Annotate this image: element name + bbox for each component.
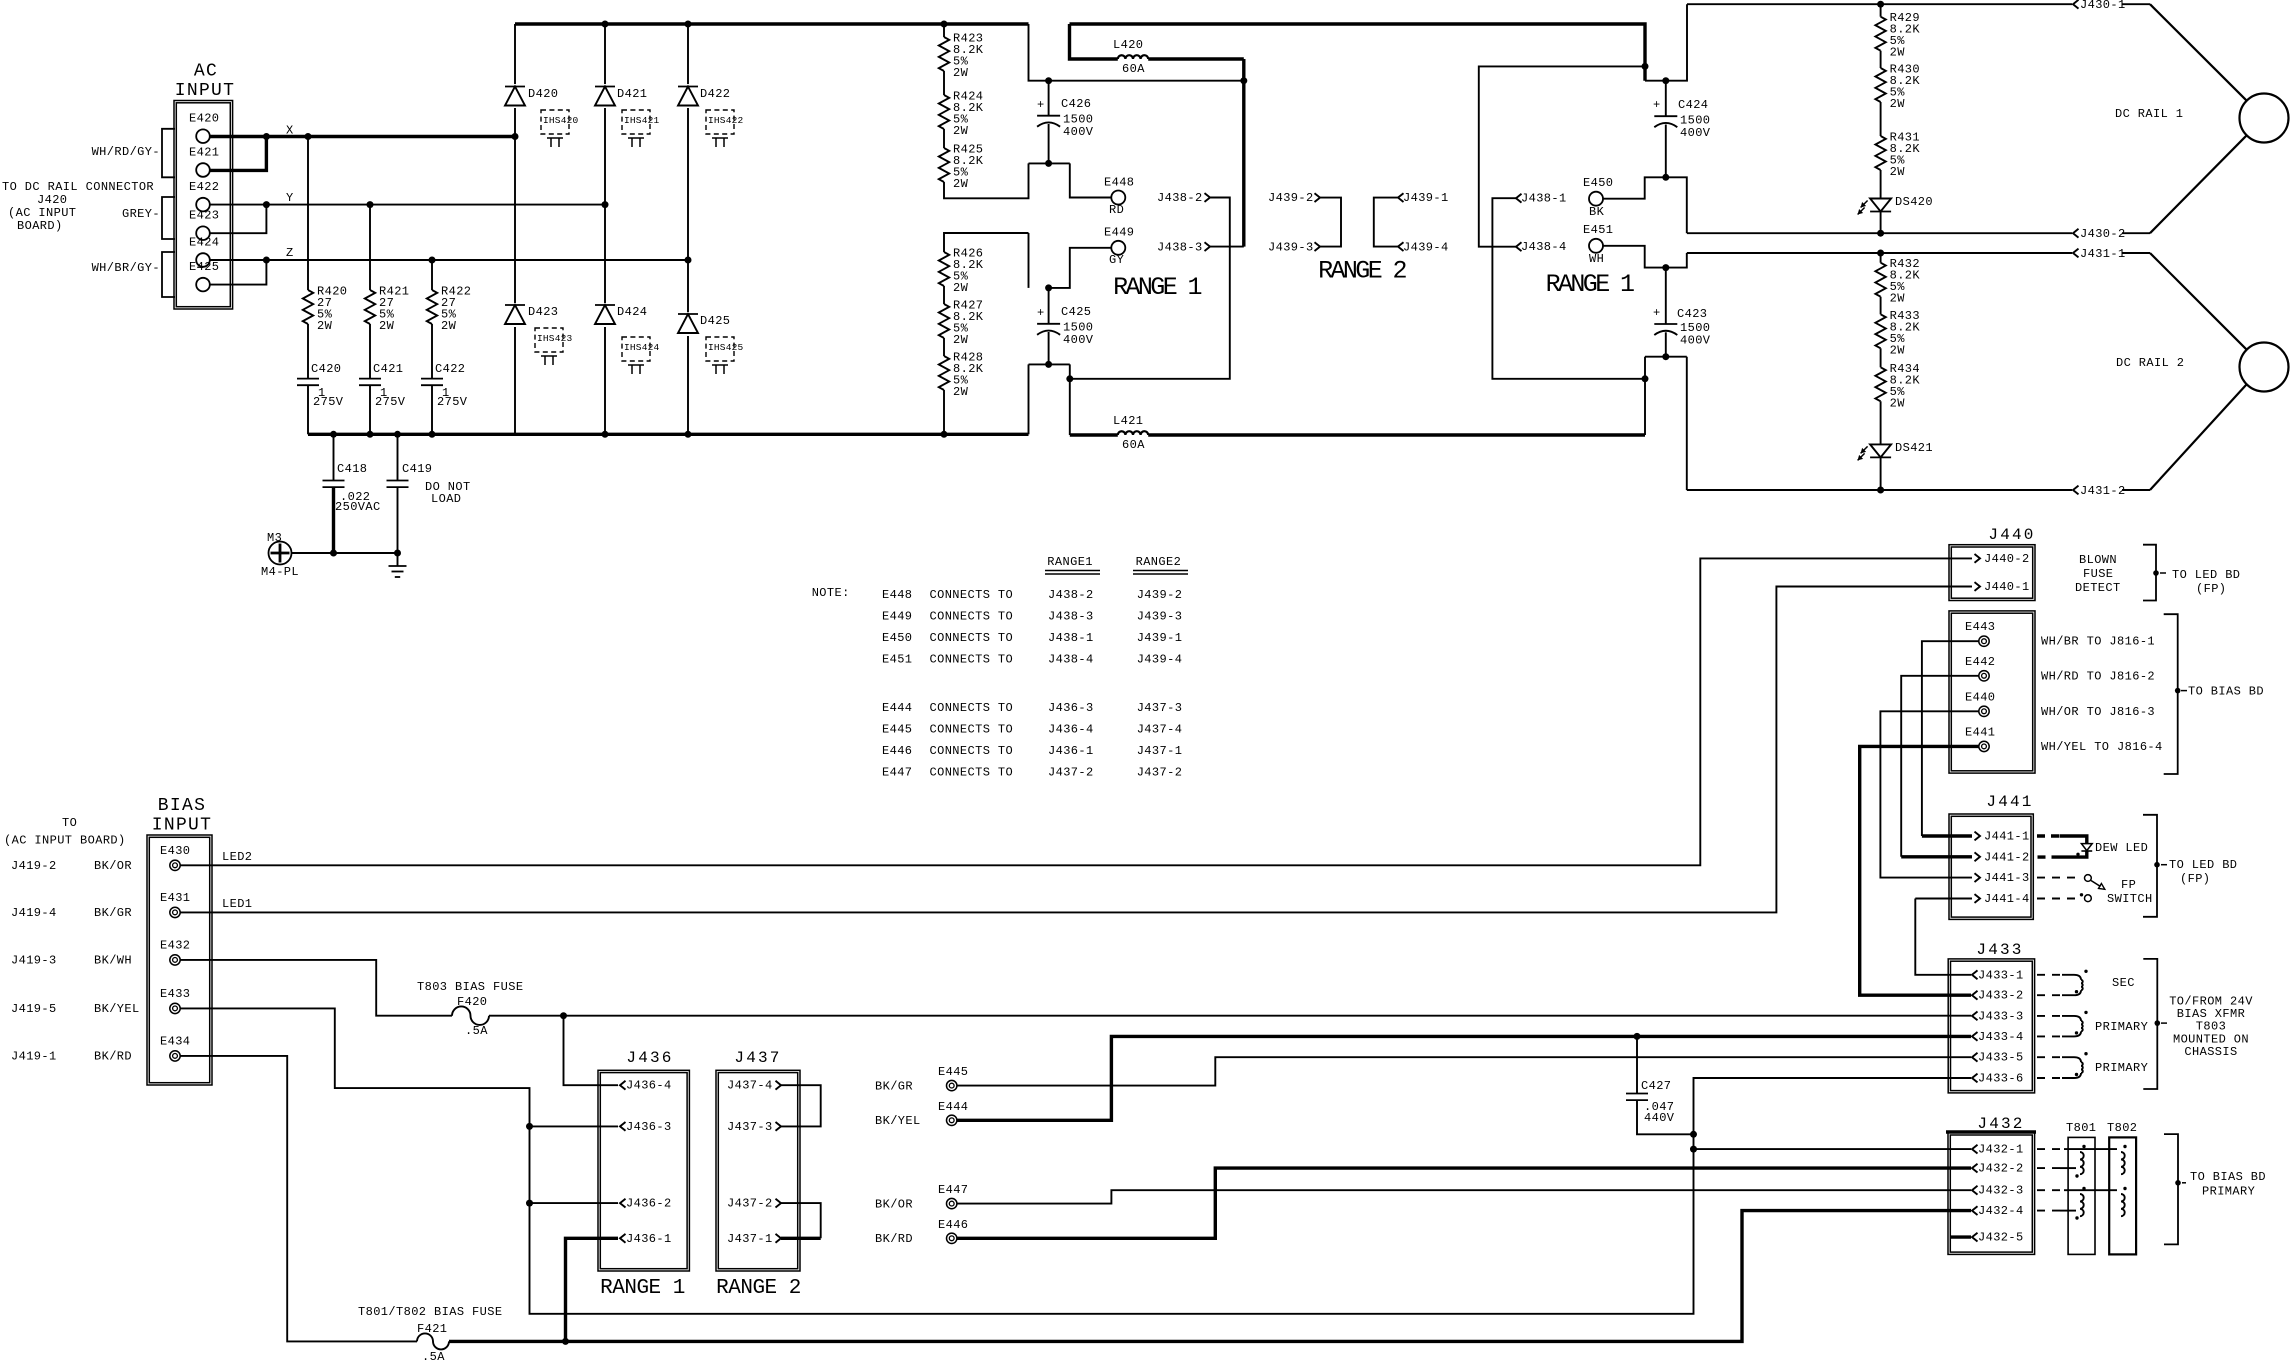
svg-text:LOAD: LOAD: [431, 492, 461, 506]
resistor R427 8.2K 5% 2W: [939, 286, 984, 347]
svg-text:J437-3: J437-3: [1137, 701, 1183, 715]
svg-text:C418: C418: [337, 462, 367, 476]
wire E423 jumper to Y: [210, 205, 267, 234]
svg-text:E449: E449: [882, 609, 912, 623]
svg-text:J440-1: J440-1: [1984, 580, 2030, 594]
svg-text:C423: C423: [1677, 307, 1707, 321]
label J419-5 BK/YEL: [11, 1002, 140, 1016]
svg-text:T801/T802 BIAS FUSE: T801/T802 BIAS FUSE: [358, 1305, 502, 1319]
svg-text:RANGE 1: RANGE 1: [1113, 273, 1201, 302]
resistor R423 8.2K 5% 2W: [939, 24, 984, 80]
wire F420 to J433-3: [489, 1015, 1971, 1017]
junction Z/bridge: [685, 257, 692, 264]
terminal E420: [189, 112, 219, 143]
svg-text:E448: E448: [1104, 176, 1134, 190]
junction top bus D422: [685, 21, 692, 28]
svg-text:RANGE 2: RANGE 2: [1318, 256, 1406, 285]
svg-text:440V: 440V: [1644, 1111, 1675, 1125]
svg-text:WH/YEL TO J816-4: WH/YEL TO J816-4: [2041, 740, 2163, 754]
svg-text:+: +: [1037, 98, 1045, 112]
svg-text:FUSE: FUSE: [2083, 567, 2113, 581]
svg-text:BK/GR: BK/GR: [94, 906, 132, 920]
connector J440 box: [1949, 526, 2036, 601]
winding T803 PRIMARY 1: [2037, 1011, 2148, 1037]
fuse F421 .5A T801/T802 BIAS FUSE: [358, 1305, 502, 1364]
svg-text:L421: L421: [1113, 414, 1143, 428]
svg-text:E424: E424: [189, 236, 219, 250]
svg-text:RANGE 2: RANGE 2: [716, 1277, 801, 1300]
svg-text:J439-4: J439-4: [1137, 652, 1183, 666]
terminal E449 GY: [1104, 226, 1134, 268]
diode D425: [676, 312, 730, 336]
bracket TO LED BD (FP) for J440: [2143, 545, 2240, 601]
capacitor C421 1 275V: [359, 324, 406, 434]
junction Z/J436-2: [526, 1200, 533, 1207]
svg-text:E444: E444: [882, 701, 912, 715]
svg-text:2W: 2W: [953, 281, 969, 295]
junction E444 net C427: [1634, 1033, 1641, 1040]
svg-text:(FP): (FP): [2196, 582, 2226, 596]
capacitor C427 .047 440V: [1626, 1036, 1694, 1134]
svg-text:F420: F420: [457, 995, 487, 1009]
resistor R422 27 5% 2W: [427, 260, 472, 333]
pin J436-4: [620, 1079, 672, 1093]
pin J433-1: [1972, 968, 2024, 982]
terminal E451 WH: [1583, 223, 1613, 266]
pin J436-2: [620, 1197, 672, 1211]
svg-text:J438-4: J438-4: [1521, 240, 1567, 254]
wire J431-2 rail: [1687, 489, 2072, 491]
svg-text:275V: 275V: [313, 395, 344, 409]
svg-text:2W: 2W: [1890, 396, 1906, 410]
svg-text:E441: E441: [1965, 725, 1995, 739]
pin J432-2: [1972, 1162, 2024, 1176]
junction Y/E423: [263, 201, 270, 208]
terminal E444 BK/YEL: [875, 1100, 968, 1128]
svg-text:DS421: DS421: [1895, 441, 1933, 455]
svg-text:D425: D425: [700, 314, 730, 328]
pin J431-1: [2073, 247, 2150, 261]
svg-text:J437-4: J437-4: [1137, 723, 1183, 737]
svg-text:E447: E447: [938, 1183, 968, 1197]
winding T803 PRIMARY 2: [2037, 1052, 2148, 1078]
label WH/RD/GY with bracket: [92, 129, 175, 178]
svg-text:J431-1: J431-1: [2080, 247, 2126, 261]
svg-text:PRIMARY: PRIMARY: [2095, 1020, 2148, 1034]
wire Z bias E433 to J436/J432-1 net: [180, 1008, 1971, 1313]
wire R425 bottom to C426- node: [944, 163, 1029, 198]
svg-text:C427: C427: [1641, 1079, 1671, 1093]
svg-text:J441-4: J441-4: [1984, 892, 2030, 906]
svg-text:J436: J436: [626, 1049, 673, 1067]
junction C425-: [1045, 361, 1052, 368]
svg-text:J433-4: J433-4: [1978, 1030, 2024, 1044]
svg-text:400V: 400V: [1680, 334, 1711, 348]
label J419-4 BK/GR: [11, 906, 132, 920]
svg-text:275V: 275V: [437, 395, 468, 409]
label GREY with bracket: [122, 197, 175, 239]
connector J441 box: [1949, 793, 2034, 919]
svg-text:Y: Y: [286, 191, 294, 205]
resistor R421 27 5% 2W: [365, 205, 410, 333]
wire bridge+ feed to C426/L420out: [1029, 24, 1244, 81]
svg-text:60A: 60A: [1122, 438, 1145, 452]
svg-text:WH/BR TO J816-1: WH/BR TO J816-1: [2041, 635, 2155, 649]
svg-text:DETECT: DETECT: [2075, 581, 2121, 595]
terminal E432: [160, 938, 190, 965]
svg-text:J437-1: J437-1: [1137, 744, 1183, 758]
svg-text:2W: 2W: [441, 319, 457, 333]
diode D420: [503, 84, 558, 108]
svg-text:J438-2: J438-2: [1157, 191, 1203, 205]
wire E442 to J441-2: [1901, 676, 1979, 857]
svg-text:T803 BIAS FUSE: T803 BIAS FUSE: [417, 980, 523, 994]
svg-text:IHS424: IHS424: [624, 342, 660, 353]
svg-text:J438-1: J438-1: [1521, 192, 1567, 206]
junction top bus D421: [602, 21, 609, 28]
svg-text:INPUT: INPUT: [152, 816, 213, 836]
svg-text:BOARD): BOARD): [17, 219, 63, 233]
connector BIAS INPUT box: [147, 796, 212, 1085]
wire bridge positive top bus: [515, 22, 1029, 25]
wire Y bias E434 to F421: [180, 1056, 417, 1342]
svg-text:J439-2: J439-2: [1268, 191, 1314, 205]
wire R428 bottom to bus: [943, 390, 945, 434]
chassis screw M3 M4-PL: [261, 531, 299, 579]
terminal E425: [189, 260, 219, 291]
led DEW LED: [2037, 836, 2148, 857]
wire J436-1 drop thick: [566, 1238, 619, 1341]
junction X/R420: [305, 133, 312, 140]
junction rail2/R432: [1877, 250, 1884, 257]
wire bridge right column: [687, 24, 689, 434]
svg-text:DEW LED: DEW LED: [2095, 841, 2148, 855]
switch FP SWITCH: [2037, 875, 2153, 906]
resistor R434 8.2K 5% 2W: [1875, 348, 1920, 410]
svg-text:E446: E446: [938, 1218, 968, 1232]
led DS420: [1858, 170, 1933, 233]
capacitor C423 1500 400V: [1653, 268, 1711, 357]
wire E447 to J432-3: [957, 1190, 1971, 1203]
svg-text:BK/YEL: BK/YEL: [94, 1002, 140, 1016]
svg-text:J437-2: J437-2: [727, 1197, 773, 1211]
terminal E421: [189, 146, 219, 177]
terminal E430: [160, 844, 190, 871]
wire X bias E432 to F420: [180, 960, 452, 1016]
svg-text:BK/GR: BK/GR: [875, 1080, 913, 1094]
terminal E424: [189, 236, 219, 267]
svg-text:RANGE2: RANGE2: [1136, 555, 1182, 569]
junction L420 out: [1240, 77, 1247, 84]
svg-text:J433: J433: [1976, 941, 2023, 959]
terminal E423: [189, 209, 219, 240]
svg-text:SWITCH: SWITCH: [2107, 892, 2153, 906]
wire L420 output drop to J438-3: [1242, 59, 1245, 247]
winding T801 lower: [2075, 1187, 2085, 1220]
wire C423- left arm to L421 out: [1644, 357, 1646, 435]
svg-text:D422: D422: [700, 87, 730, 101]
svg-text:J438-3: J438-3: [1157, 241, 1203, 255]
heatsink IHS423: [535, 328, 573, 365]
svg-text:PRIMARY: PRIMARY: [2095, 1061, 2148, 1075]
svg-text:J439-1: J439-1: [1403, 191, 1449, 205]
svg-text:2W: 2W: [1890, 343, 1906, 357]
label J419-3 BK/WH: [11, 953, 132, 967]
svg-text:J440-2: J440-2: [1984, 552, 2030, 566]
ground symbol: [389, 553, 407, 577]
junction Z/R422: [429, 257, 436, 264]
junction Z riser J432-1: [1690, 1146, 1697, 1153]
svg-text:D423: D423: [528, 305, 558, 319]
pin J439-1: [1398, 191, 1449, 205]
winding T801 upper: [2075, 1145, 2085, 1178]
svg-text:J419-5: J419-5: [11, 1002, 57, 1016]
svg-text:J419-4: J419-4: [11, 906, 57, 920]
svg-text:RANGE 1: RANGE 1: [600, 1277, 685, 1300]
svg-text:GY: GY: [1109, 253, 1124, 267]
junction X/bridge: [512, 133, 519, 140]
wire J441-4 to J433-1: [1915, 899, 1971, 975]
svg-text:.5A: .5A: [465, 1024, 488, 1038]
svg-text:+: +: [1037, 306, 1045, 320]
terminal E443: [1965, 620, 1995, 646]
heatsink IHS422: [706, 110, 744, 147]
svg-text:DC RAIL 1: DC RAIL 1: [2115, 107, 2183, 121]
svg-text:J437-1: J437-1: [727, 1232, 773, 1246]
wire J432-1 stub: [1694, 1148, 1972, 1150]
pin J440-2: [1975, 552, 2030, 566]
resistor R428 8.2K 5% 2W: [939, 338, 984, 399]
wire snubber ground bus: [308, 433, 1029, 436]
svg-text:SEC: SEC: [2112, 976, 2135, 990]
resistor R425 8.2K 5% 2W: [939, 129, 984, 191]
svg-text:T803: T803: [2196, 1020, 2226, 1034]
svg-text:E422: E422: [189, 180, 219, 194]
svg-text:J441: J441: [1986, 793, 2033, 811]
pin J430-1: [2073, 0, 2150, 12]
svg-text:DS420: DS420: [1895, 195, 1933, 209]
svg-text:D420: D420: [528, 87, 558, 101]
winding T802 upper: [2121, 1145, 2127, 1174]
wire LED2 E430 to J440-2: [180, 558, 1972, 865]
svg-text:J439-3: J439-3: [1137, 609, 1183, 623]
svg-text:T801: T801: [2066, 1121, 2096, 1135]
svg-text:TO DC RAIL CONNECTOR: TO DC RAIL CONNECTOR: [2, 180, 154, 194]
transformer T802 box: [2107, 1121, 2137, 1254]
pin J438-2: [1157, 191, 1210, 205]
svg-text:E443: E443: [1965, 620, 1995, 634]
pin J440-1: [1975, 580, 2030, 594]
svg-text:E445: E445: [882, 723, 912, 737]
svg-text:X: X: [286, 124, 294, 138]
svg-text:J419-1: J419-1: [11, 1049, 57, 1063]
capacitor C425 1500 400V: [1037, 288, 1094, 365]
wire E421 jumper to X: [210, 137, 267, 171]
svg-text:IHS425: IHS425: [708, 342, 744, 353]
svg-text:CONNECTS TO: CONNECTS TO: [930, 652, 1014, 666]
svg-text:E431: E431: [160, 891, 190, 905]
junction Z/E425: [263, 257, 270, 264]
capacitor C420 1 275V: [297, 324, 344, 434]
heatsink IHS425: [706, 337, 744, 374]
svg-text:E445: E445: [938, 1065, 968, 1079]
pin J433-4: [1972, 1030, 2024, 1044]
capacitor C419 DO NOT LOAD: [387, 434, 471, 553]
svg-text:L420: L420: [1113, 38, 1143, 52]
resistor R431 8.2K 5% 2W: [1875, 102, 1920, 179]
svg-text:RANGE 1: RANGE 1: [1546, 270, 1634, 299]
pin J432-4: [1972, 1204, 2024, 1218]
svg-text:LED2: LED2: [222, 850, 252, 864]
pin J441-4: [1975, 892, 2030, 906]
svg-text:J439-1: J439-1: [1137, 631, 1183, 645]
connector J420 AC INPUT box: [174, 62, 235, 310]
svg-text:J433-1: J433-1: [1978, 968, 2024, 982]
terminal E447 BK/OR: [875, 1183, 968, 1212]
resistor R420 27 5% 2W: [303, 137, 348, 334]
junction bus/C422: [429, 431, 436, 438]
wire R426 top drop to C425+ node: [1028, 233, 1030, 288]
connector J436 box: [598, 1049, 689, 1300]
connector E44x block box: [1949, 611, 2035, 773]
svg-text:E449: E449: [1104, 226, 1134, 240]
svg-text:J436-1: J436-1: [626, 1232, 672, 1246]
svg-text:CONNECTS TO: CONNECTS TO: [930, 766, 1014, 780]
svg-text:400V: 400V: [1063, 333, 1094, 347]
svg-text:J431-2: J431-2: [2080, 484, 2126, 498]
resistor R432 8.2K 5% 2W: [1875, 253, 1920, 306]
svg-text:CONNECTS TO: CONNECTS TO: [930, 588, 1014, 602]
svg-text:IHS421: IHS421: [624, 115, 660, 126]
svg-text:E423: E423: [189, 209, 219, 223]
junction bottom bus D424: [602, 431, 609, 438]
junction C425+: [1045, 284, 1052, 291]
wire C425- left arm to ground bus: [1028, 364, 1030, 434]
svg-text:IHS422: IHS422: [708, 115, 744, 126]
svg-text:J436-1: J436-1: [1048, 744, 1094, 758]
label WH/BR/GY with bracket: [92, 252, 175, 297]
wire C425- cross arms: [1029, 363, 1070, 365]
wire C423- right arm to J431-2: [1686, 357, 1688, 490]
svg-text:J437: J437: [734, 1049, 781, 1067]
bracket TO BIAS BD PRIMARY: [2164, 1134, 2266, 1244]
fuse F420 .5A T803 BIAS FUSE: [417, 980, 523, 1038]
wire M3 to ground: [292, 552, 398, 554]
wire J436-3 stub: [530, 1125, 619, 1127]
svg-text:2W: 2W: [1890, 97, 1906, 111]
pin J441-2: [1975, 850, 2030, 864]
svg-text:J438-4: J438-4: [1048, 652, 1094, 666]
junction C423-: [1662, 353, 1669, 360]
pin J441-3: [1975, 871, 2030, 885]
diode D421: [593, 84, 647, 108]
svg-text:60A: 60A: [1122, 62, 1145, 76]
wire J432-5 stub: [1950, 1235, 1971, 1238]
label J419-1 BK/RD: [11, 1049, 132, 1063]
svg-text:E447: E447: [882, 766, 912, 780]
note table header RANGE1: [1045, 555, 1100, 574]
svg-text:J436-3: J436-3: [1048, 701, 1094, 715]
svg-text:J433-5: J433-5: [1978, 1051, 2024, 1065]
svg-text:BK: BK: [1589, 205, 1605, 219]
resistor R424 8.2K 5% 2W: [939, 71, 984, 138]
svg-text:D421: D421: [617, 87, 647, 101]
wire C423+ to J431-1: [1666, 253, 1687, 268]
wire E441 to J433-2 thick: [1860, 746, 1979, 995]
pin J438-1: [1516, 192, 1567, 206]
svg-text:NOTE:: NOTE:: [812, 586, 850, 600]
junction C426-: [1045, 160, 1052, 167]
svg-text:C419: C419: [402, 462, 432, 476]
svg-text:TO BIAS BD: TO BIAS BD: [2190, 1170, 2266, 1184]
svg-text:DC RAIL 2: DC RAIL 2: [2116, 356, 2184, 370]
wire bus to C424+ and J430-1: [1645, 4, 1687, 81]
svg-text:2W: 2W: [953, 177, 969, 191]
terminal E442: [1965, 655, 1995, 681]
output connector circle DC RAIL 2: [2150, 253, 2289, 490]
wire main DC bus post-L420: [1070, 24, 1646, 81]
wire C423- cross: [1645, 356, 1687, 358]
junction J438-2 net on L421 riser: [1066, 375, 1073, 382]
junction Z riser C427: [1690, 1131, 1697, 1138]
terminal E440: [1965, 690, 1995, 716]
svg-text:2W: 2W: [953, 66, 969, 80]
svg-text:J430-1: J430-1: [2080, 0, 2126, 12]
junction bus/C421: [367, 431, 374, 438]
pin J436-1: [620, 1232, 672, 1246]
svg-text:(FP): (FP): [2180, 872, 2210, 886]
svg-text:CHASSIS: CHASSIS: [2184, 1045, 2237, 1059]
wire J437-4 to J437-3 jumper: [781, 1085, 821, 1126]
pin J432-5: [1972, 1231, 2024, 1245]
heatsink IHS424: [622, 337, 660, 374]
svg-text:J439-2: J439-2: [1137, 588, 1183, 602]
wire C424- to J430-2: [1666, 177, 1687, 233]
wire J438-4 to DC bus node: [1479, 66, 1645, 246]
transformer T801 box: [2066, 1121, 2096, 1254]
svg-text:M4-PL: M4-PL: [261, 565, 299, 579]
svg-text:E440: E440: [1965, 690, 1995, 704]
svg-text:WH/BR/GY-: WH/BR/GY-: [92, 261, 160, 275]
svg-text:RANGE1: RANGE1: [1047, 555, 1093, 569]
terminal E448 RD: [1104, 176, 1134, 218]
svg-text:CONNECTS TO: CONNECTS TO: [930, 609, 1014, 623]
svg-text:J432-2: J432-2: [1978, 1162, 2024, 1176]
svg-text:WH/RD TO J816-2: WH/RD TO J816-2: [2041, 669, 2155, 683]
svg-text:E442: E442: [1965, 655, 1995, 669]
svg-text:E446: E446: [882, 744, 912, 758]
svg-text:J436-3: J436-3: [626, 1120, 672, 1134]
wire X net from E420 to bridge: [210, 124, 515, 138]
winding T802 lower: [2121, 1187, 2127, 1216]
svg-text:CONNECTS TO: CONNECTS TO: [930, 744, 1014, 758]
junction C424-: [1662, 174, 1669, 181]
svg-text:J433-6: J433-6: [1978, 1072, 2024, 1086]
svg-text:E420: E420: [189, 112, 219, 126]
pin J439-3: [1268, 241, 1320, 255]
svg-text:2W: 2W: [953, 124, 969, 138]
svg-text:+: +: [1653, 306, 1661, 320]
wire E449 to C425+: [1049, 248, 1112, 288]
svg-text:E430: E430: [160, 844, 190, 858]
svg-text:IHS423: IHS423: [537, 333, 573, 344]
bracket TO BIAS BD: [2164, 614, 2264, 774]
junction Y/R421: [367, 201, 374, 208]
svg-text:C424: C424: [1678, 98, 1708, 112]
terminal E433: [160, 987, 190, 1014]
pin J433-6: [1972, 1072, 2024, 1086]
wire Z net from E424 to bridge: [210, 246, 688, 260]
